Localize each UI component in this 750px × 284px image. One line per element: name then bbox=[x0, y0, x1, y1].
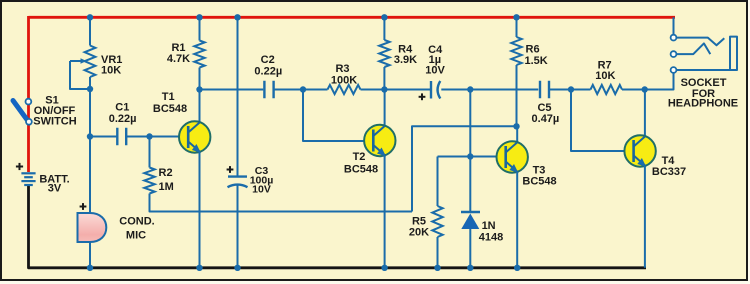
label T2 BC548 bbox=[344, 151, 378, 176]
label R7 10K bbox=[595, 59, 615, 82]
svg-text:R6: R6 bbox=[526, 43, 540, 55]
svg-text:COND.: COND. bbox=[119, 215, 154, 227]
node T3 emitter-ground bbox=[514, 265, 520, 271]
wire T1 collector bbox=[199, 90, 201, 123]
wire C1 to T1 base node bbox=[127, 136, 150, 138]
node C4 out bbox=[467, 86, 473, 92]
potentiometer VR1 10K bbox=[85, 46, 96, 78]
wire rail to socket tip bbox=[673, 17, 675, 34]
wire sleeve to output node bbox=[645, 73, 674, 90]
svg-text:BC337: BC337 bbox=[652, 166, 686, 178]
node T2 base feed bbox=[300, 86, 306, 92]
resistor R7 10K bbox=[591, 85, 623, 94]
VR1 wiper arrow bbox=[70, 58, 87, 64]
wire R7 to output node bbox=[622, 89, 674, 91]
svg-text:1M: 1M bbox=[159, 181, 174, 193]
node diode-ground bbox=[467, 265, 473, 271]
svg-text:BC548: BC548 bbox=[344, 164, 378, 176]
resistor R3 100K bbox=[328, 85, 361, 94]
node mic-ground bbox=[87, 265, 93, 271]
label T4 BC337 bbox=[652, 155, 686, 178]
svg-text:4148: 4148 bbox=[479, 232, 503, 244]
wire C4 node down bbox=[469, 90, 471, 157]
svg-text:10V: 10V bbox=[252, 184, 271, 196]
wire T2 collector node to C4 bbox=[384, 89, 430, 91]
socket sleeve line bbox=[676, 37, 737, 70]
wire T4 emitter to ground bbox=[644, 166, 646, 268]
svg-text:SWITCH: SWITCH bbox=[33, 115, 76, 127]
svg-text:HEADPHONE: HEADPHONE bbox=[668, 97, 738, 109]
node rail-VR1 bbox=[87, 14, 93, 20]
label C4 1u 10V bbox=[425, 44, 445, 77]
socket tip spring bbox=[676, 38, 724, 46]
wire R3 to T2 collector node bbox=[361, 89, 385, 91]
label R6 1.5K bbox=[525, 43, 548, 67]
mic plus bbox=[80, 203, 87, 210]
wire C3 to ground bbox=[237, 186, 239, 268]
label T1 BC548 bbox=[153, 91, 187, 115]
node T1 collector bbox=[196, 86, 202, 92]
socket tip terminal bbox=[671, 35, 677, 41]
label C1 0.22u bbox=[109, 101, 137, 125]
node rail-R1 bbox=[196, 14, 202, 20]
resistor R2 1M bbox=[144, 168, 154, 194]
wire rail to VR1 bbox=[89, 17, 91, 45]
node T4 base feed bbox=[568, 86, 574, 92]
capacitor C2 0.22u bbox=[264, 81, 273, 99]
node R5-ground bbox=[434, 265, 440, 271]
wire mic to ground rail bbox=[89, 242, 91, 268]
node T1 base bbox=[146, 133, 152, 139]
label C2 0.22u bbox=[254, 54, 282, 77]
resistor R4 3.9K bbox=[379, 40, 389, 67]
wire VR1 to mic bbox=[89, 89, 91, 214]
wire diode lead bbox=[469, 157, 471, 213]
switch S1 contacts bbox=[26, 99, 32, 125]
wire diode to ground bbox=[469, 229, 471, 268]
label R4 3.9K bbox=[394, 44, 417, 67]
svg-text:1N: 1N bbox=[482, 220, 496, 232]
node output bbox=[642, 86, 648, 92]
svg-text:10K: 10K bbox=[101, 65, 121, 77]
resistor R6 1.5K bbox=[511, 37, 521, 65]
wire VR1 to node bbox=[89, 77, 91, 89]
wire collector node to C2 bbox=[200, 89, 264, 91]
node VR1 bottom bbox=[87, 86, 93, 92]
svg-text:R2: R2 bbox=[159, 167, 173, 179]
node rail-R4 bbox=[381, 14, 387, 20]
wire T2 collector bbox=[384, 90, 386, 127]
wire T4 base drop bbox=[571, 90, 635, 152]
label VR1 10K bbox=[101, 54, 122, 77]
label R5 20K bbox=[409, 216, 429, 239]
label R1 4.7K bbox=[167, 42, 190, 65]
wire node to C1 bbox=[90, 136, 117, 138]
svg-text:0.47µ: 0.47µ bbox=[532, 113, 560, 125]
wire T2 base drop bbox=[303, 90, 373, 142]
negative/ground rail (black, bottom) bbox=[29, 186, 647, 268]
node C3-ground bbox=[234, 265, 240, 271]
svg-text:MIC: MIC bbox=[126, 230, 146, 242]
svg-text:4.7K: 4.7K bbox=[167, 53, 190, 65]
C4 plus bbox=[419, 93, 426, 100]
svg-text:C2: C2 bbox=[261, 54, 275, 66]
capacitor C1 0.22u bbox=[117, 128, 126, 146]
svg-text:10K: 10K bbox=[595, 70, 615, 82]
svg-text:3.9K: 3.9K bbox=[394, 54, 417, 66]
wire T1 base bbox=[150, 136, 189, 138]
svg-text:10V: 10V bbox=[425, 65, 445, 77]
wire red left vertical to battery bbox=[27, 16, 30, 172]
wire T4 collector bbox=[644, 90, 646, 137]
capacitor C5 0.47u bbox=[540, 81, 549, 99]
label C5 0.47u bbox=[532, 102, 560, 125]
label C3 100u 10V bbox=[250, 165, 274, 196]
wire rail to R6 bbox=[516, 17, 518, 37]
node T3 collector bbox=[513, 123, 519, 129]
capacitor C4 1u (polarized) bbox=[431, 81, 440, 99]
wire C5 to T4 base node bbox=[550, 89, 591, 91]
wire T3 collector bbox=[516, 126, 518, 142]
svg-text:0.22µ: 0.22µ bbox=[254, 65, 282, 77]
wire T3 collector node left run bbox=[412, 126, 517, 211]
wire C4 to diode node bbox=[441, 89, 538, 91]
svg-text:100K: 100K bbox=[331, 74, 357, 86]
svg-text:T2: T2 bbox=[353, 151, 366, 163]
wire C2 to T2 base node bbox=[275, 89, 328, 91]
label COND. MIC bbox=[119, 215, 154, 241]
svg-text:BC548: BC548 bbox=[522, 175, 556, 187]
wire R2 to ground run bbox=[150, 194, 413, 212]
node T2 collector bbox=[381, 86, 387, 92]
svg-text:R3: R3 bbox=[335, 63, 349, 75]
transistor T1 BC548 bbox=[179, 121, 210, 153]
socket ring spring bbox=[676, 43, 710, 54]
wire R5 drop bbox=[437, 157, 439, 207]
node T2 emitter-ground bbox=[381, 265, 387, 271]
wire T3 emitter to ground bbox=[516, 172, 518, 268]
C3 plus bbox=[227, 166, 234, 173]
wire rail to C3 bbox=[237, 17, 239, 176]
svg-text:BC548: BC548 bbox=[153, 103, 187, 115]
label S1 ON/OFF SWITCH bbox=[33, 95, 76, 128]
socket sleeve terminal bbox=[671, 67, 677, 73]
svg-text:3V: 3V bbox=[48, 183, 62, 195]
wire R6 to collector node bbox=[516, 65, 518, 126]
wire rail to R1 bbox=[199, 17, 201, 40]
condenser mic body bbox=[78, 213, 107, 242]
svg-text:T1: T1 bbox=[162, 91, 175, 103]
wire rail to R4 bbox=[383, 17, 385, 40]
node rail-C3 bbox=[234, 14, 240, 20]
positive supply rail (red, top) bbox=[29, 16, 676, 19]
wire node to R2 bbox=[149, 137, 151, 168]
wire VR1 wiper bracket bbox=[70, 61, 90, 89]
transistor T3 BC548 bbox=[497, 141, 528, 173]
wire T2 emitter to ground bbox=[384, 155, 386, 268]
node C1 tap bbox=[87, 133, 93, 139]
resistor R1 4.7K bbox=[194, 41, 204, 68]
svg-text:0.22µ: 0.22µ bbox=[109, 113, 137, 125]
svg-text:C1: C1 bbox=[115, 101, 129, 113]
svg-text:20K: 20K bbox=[409, 226, 429, 238]
wire T1 emitter to ground bbox=[199, 152, 201, 268]
wire R4 to node bbox=[383, 67, 385, 90]
label BATT. 3V bbox=[39, 174, 69, 195]
transistor T2 BC548 bbox=[364, 125, 395, 157]
wire T3 base line bbox=[438, 156, 506, 158]
label 1N 4148 bbox=[479, 220, 503, 243]
node diode top bbox=[467, 153, 473, 159]
socket ring terminal bbox=[671, 51, 677, 57]
diode D1 1N4148 bbox=[461, 212, 480, 229]
node T1 emitter-ground bbox=[196, 265, 202, 271]
capacitor C3 100u bbox=[228, 177, 248, 188]
label T3 BC548 bbox=[522, 165, 556, 188]
label R3 100K bbox=[331, 63, 357, 86]
wire R1 to collector node bbox=[199, 68, 201, 90]
label SOCKET FOR HEADPHONE bbox=[668, 77, 738, 109]
resistor R5 20K bbox=[432, 206, 442, 237]
node rail-R6 bbox=[513, 14, 519, 20]
transistor T4 BC337 bbox=[624, 135, 655, 167]
battery BATT. 3V bbox=[16, 163, 36, 185]
wire R5 to ground bbox=[437, 237, 439, 268]
switch S1 lever bbox=[13, 101, 27, 120]
label R2 1M bbox=[159, 167, 174, 193]
svg-text:1.5K: 1.5K bbox=[525, 55, 548, 67]
